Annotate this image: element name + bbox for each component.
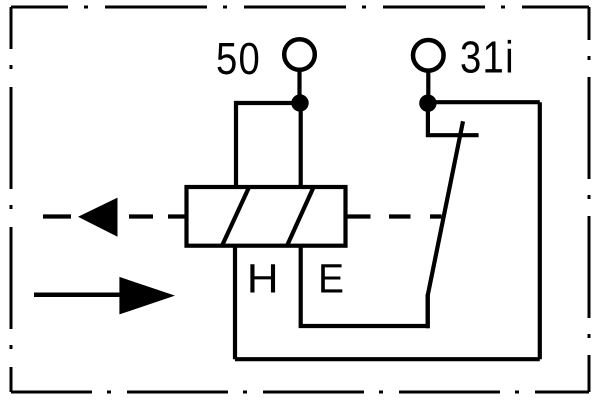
terminal circle 31i [413,40,444,71]
wire E lead bottom to switch [301,247,428,326]
flux line dash a [43,214,71,218]
svg-text:E: E [318,256,344,302]
travel arrow shaft [34,293,121,298]
wire 31i circle to junction [426,70,430,103]
coil box K1 [187,187,346,246]
flux line dash b [129,214,153,218]
border frame right [588,7,591,392]
wire junction 50 horizontal left [236,101,300,105]
flux arrowhead left [78,198,118,237]
flux line dash c [168,214,185,218]
wire H lead bottom vertical [233,247,237,359]
junction dot at 50 [291,94,308,111]
junction dot at 31i [419,95,436,112]
coil diagonal 2 [287,187,314,245]
coil diagonal 1 [222,187,249,245]
wire right bus vertical [538,102,542,359]
terminal circle 50 [284,39,315,70]
wire right coil lead top [299,103,303,187]
wire left coil lead top [234,101,238,187]
switch blade [428,121,463,328]
wire switch stem below 31i junction [428,103,479,135]
border frame bottom [11,391,589,394]
wire junction 31i to right bus [428,100,540,104]
wire 50 circle to junction [297,70,301,103]
flux line dash f [430,214,442,218]
svg-text:H: H [247,256,279,302]
svg-text:31i: 31i [460,32,515,83]
wire bottom bus horizontal [235,357,540,361]
border frame top [11,6,589,9]
travel arrowhead right [119,277,175,315]
flux line dash e [389,214,411,218]
border frame left [10,7,13,392]
svg-text:50: 50 [216,33,261,84]
flux line dash d [348,214,371,218]
